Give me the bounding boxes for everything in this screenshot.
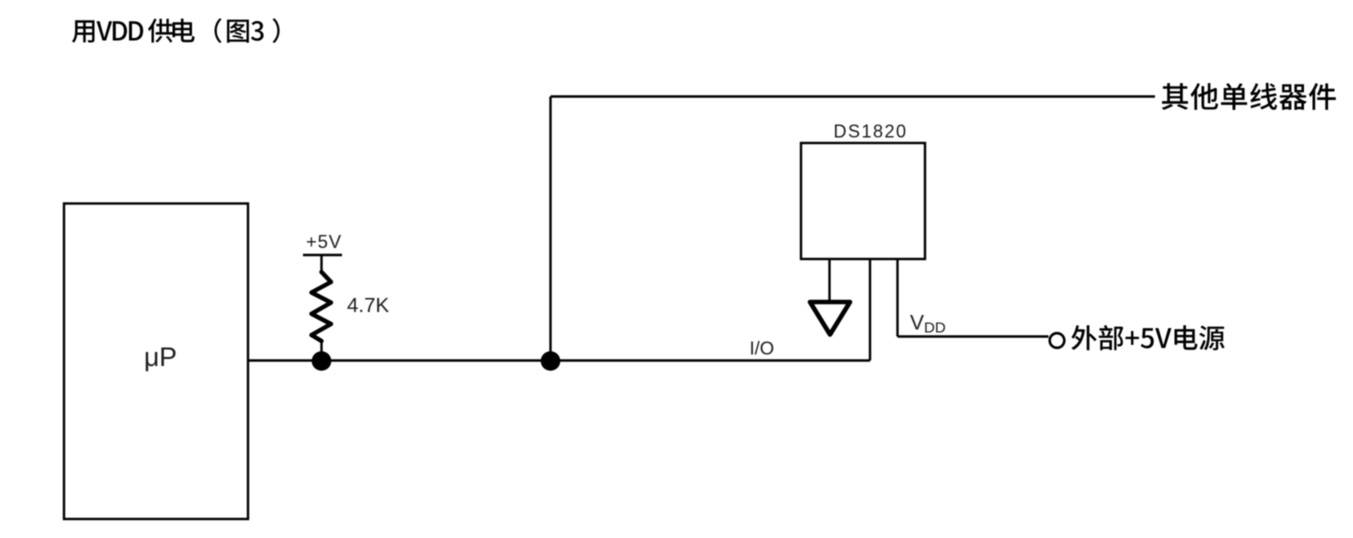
svg-text:+5V: +5V <box>306 231 342 252</box>
svg-text:4.7K: 4.7K <box>347 294 389 317</box>
svg-text:I/O: I/O <box>750 338 775 359</box>
svg-text:DS1820: DS1820 <box>834 122 908 142</box>
svg-text:μP: μP <box>144 342 177 372</box>
